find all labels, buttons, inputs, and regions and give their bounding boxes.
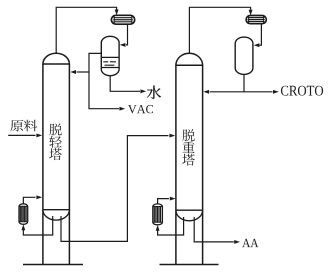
arrow transfer into T2 [169,134,175,138]
label AA [242,239,258,247]
column T1 shell (脱轻塔) [43,53,70,264]
arrow into E3 bottom [21,224,25,230]
reflux drum D2 [235,37,253,74]
label VAC [128,105,153,113]
wire: D1 side outlet / VAC header [89,53,119,108]
arrow VAC [119,107,125,111]
column T1 dished bottom [43,210,70,220]
arrow reflux into T2 [203,90,209,94]
wire: D1 bottom to water [110,76,140,92]
ground line T2 [160,264,219,266]
arrow into E4 bottom [156,225,160,231]
arrow into D2 right [254,43,260,47]
arrow E3 return [36,195,42,199]
wire: E3 return to T1 [23,197,35,204]
wire: feed line [8,134,35,136]
reflux drum D1 (decanter) [101,36,119,75]
column T2 shell (脱重塔) [176,53,203,264]
wire: E4 return to T2 [158,199,169,205]
label 原料 [10,120,37,132]
label 水 [147,86,161,99]
label 脱轻塔 [49,123,62,160]
reboiler E4 (hatched) [153,204,163,225]
wire: E2 outlet to D2 [260,24,262,46]
arrow into E1 top [115,10,119,16]
label 脱重塔 [182,129,195,165]
condenser E2 shell [246,16,266,24]
reboiler E3 (hatched) [19,204,28,225]
arrow reflux T1 [70,70,76,74]
arrow water [140,89,146,93]
arrow AA [234,240,240,244]
wire: D2 bottom tee [210,75,273,92]
condenser E1 shell [111,15,134,24]
column T2 dished bottom [176,210,203,221]
arrow feed into T1 [36,133,42,137]
wire: T2 overhead to E2 [189,7,250,54]
wire: T1 bottoms transfer to T2 [61,136,169,242]
arrow CROTO [273,90,279,94]
wire: reflux into T1 [77,71,90,73]
ground line T1 [23,264,83,266]
arrow E4 return [170,197,176,201]
wire: T1 overhead to E1 [56,7,116,54]
wire: T2 bottoms to AA [194,217,234,242]
wire: T1 bottoms to reboiler E3 [23,216,52,235]
label CROTO [281,86,323,96]
wire: T2 bottoms to reboiler E4 [158,217,184,235]
arrow into D1 right [120,43,126,47]
arrow into E2 top [249,10,253,16]
wire: E1 outlet to D1 [126,24,128,45]
